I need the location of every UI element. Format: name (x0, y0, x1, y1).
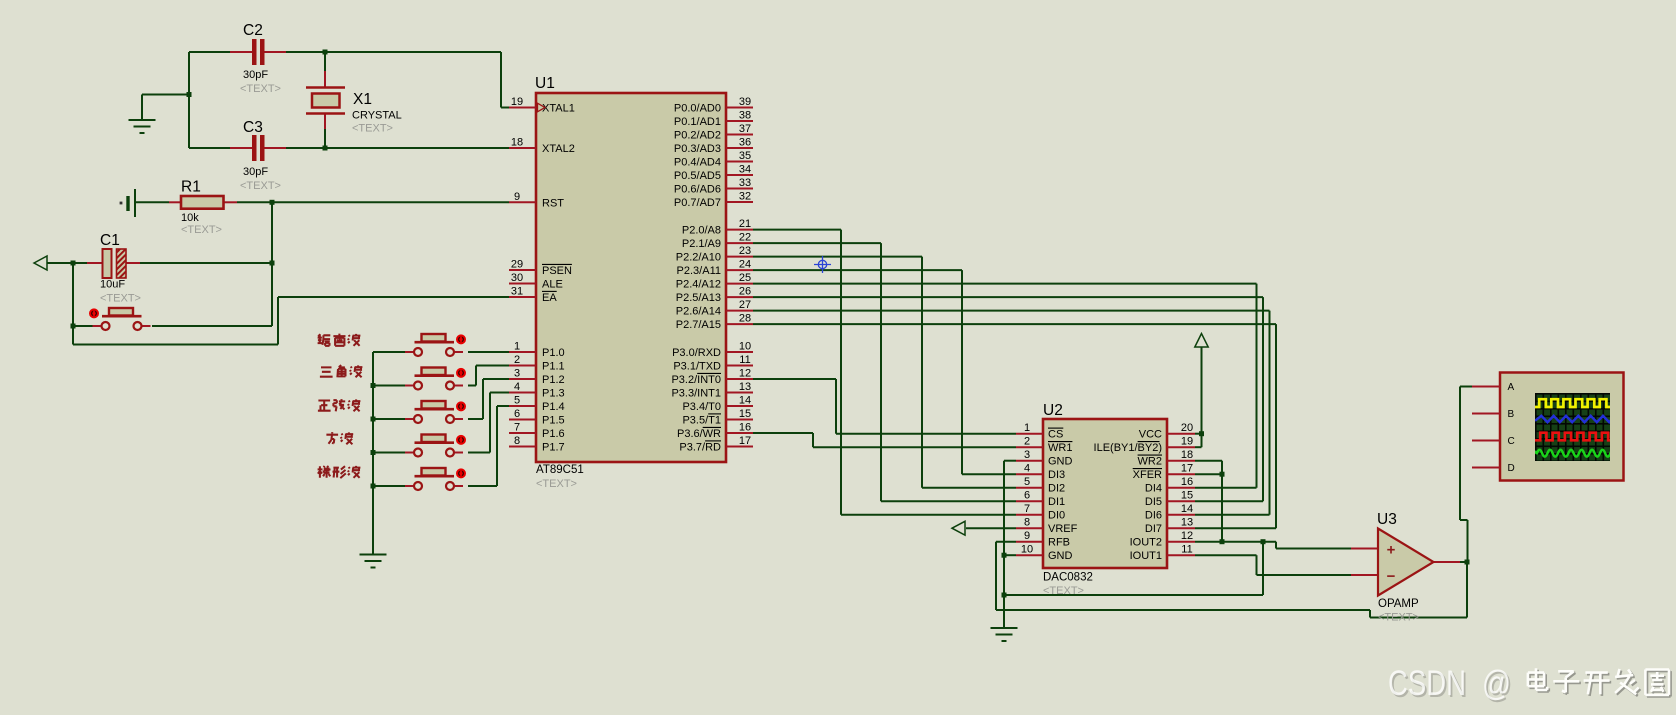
svg-text:P3.4/T0: P3.4/T0 (682, 401, 721, 413)
svg-text:WR2: WR2 (1138, 456, 1162, 468)
svg-text:P1.0: P1.0 (542, 347, 565, 359)
svg-text:<TEXT>: <TEXT> (1378, 612, 1419, 624)
svg-text:AT89C51: AT89C51 (536, 464, 584, 476)
svg-text:22: 22 (739, 232, 751, 244)
svg-text:6: 6 (1024, 490, 1030, 502)
svg-text:P0.6/AD6: P0.6/AD6 (674, 184, 721, 196)
svg-text:<TEXT>: <TEXT> (536, 478, 577, 490)
svg-text:32: 32 (739, 191, 751, 203)
svg-text:<TEXT>: <TEXT> (240, 83, 281, 95)
svg-text:35: 35 (739, 150, 751, 162)
svg-text:P0.1/AD1: P0.1/AD1 (674, 116, 721, 128)
svg-text:WR1: WR1 (1048, 442, 1072, 454)
svg-text:30: 30 (511, 272, 523, 284)
svg-text:3: 3 (514, 368, 520, 380)
svg-text:6: 6 (514, 408, 520, 420)
svg-text:GND: GND (1048, 550, 1073, 562)
svg-text:31: 31 (511, 286, 523, 298)
svg-text:<TEXT>: <TEXT> (181, 224, 222, 236)
svg-text:U3: U3 (1377, 511, 1397, 528)
svg-text:13: 13 (739, 381, 751, 393)
svg-text:CS: CS (1048, 429, 1063, 441)
svg-text:ALE: ALE (542, 279, 563, 291)
svg-text:38: 38 (739, 110, 751, 122)
svg-text:15: 15 (739, 408, 751, 420)
svg-text:RST: RST (542, 197, 564, 209)
svg-text:OPAMP: OPAMP (1378, 598, 1419, 610)
svg-text:14: 14 (1181, 503, 1193, 515)
svg-text:P1.3: P1.3 (542, 388, 565, 400)
svg-text:P3.7/RD: P3.7/RD (679, 442, 721, 454)
svg-text:<TEXT>: <TEXT> (352, 123, 393, 135)
svg-text:P2.7/A15: P2.7/A15 (676, 319, 721, 331)
svg-text:7: 7 (514, 422, 520, 434)
svg-text:IOUT1: IOUT1 (1130, 550, 1162, 562)
svg-text:XTAL2: XTAL2 (542, 143, 575, 155)
svg-text:39: 39 (739, 96, 751, 108)
svg-text:2: 2 (1024, 436, 1030, 448)
svg-text:17: 17 (1181, 463, 1193, 475)
svg-text:9: 9 (514, 191, 520, 203)
svg-text:−: − (1387, 568, 1396, 585)
svg-text:DI7: DI7 (1145, 523, 1162, 535)
svg-text:19: 19 (511, 96, 523, 108)
svg-text:37: 37 (739, 123, 751, 135)
svg-text:P3.6/WR: P3.6/WR (677, 428, 721, 440)
svg-text:P2.5/A13: P2.5/A13 (676, 292, 721, 304)
svg-text:10k: 10k (181, 212, 199, 224)
svg-text:P0.4/AD4: P0.4/AD4 (674, 157, 721, 169)
svg-text:5: 5 (514, 395, 520, 407)
svg-text:16: 16 (739, 422, 751, 434)
svg-text:8: 8 (514, 435, 520, 447)
svg-text:P2.4/A12: P2.4/A12 (676, 279, 721, 291)
svg-text:+: + (1387, 542, 1396, 559)
svg-text:12: 12 (739, 368, 751, 380)
svg-text:<TEXT>: <TEXT> (100, 293, 141, 305)
svg-text:C1: C1 (100, 232, 120, 249)
svg-text:DAC0832: DAC0832 (1043, 572, 1093, 584)
svg-text:C: C (1508, 436, 1515, 447)
svg-text:IOUT2: IOUT2 (1130, 537, 1162, 549)
svg-text:29: 29 (511, 259, 523, 271)
svg-text:20: 20 (1181, 422, 1193, 434)
svg-text:17: 17 (739, 435, 751, 447)
svg-text:14: 14 (739, 395, 751, 407)
svg-text:13: 13 (1181, 517, 1193, 529)
svg-text:VREF: VREF (1048, 523, 1078, 535)
svg-text:DI6: DI6 (1145, 510, 1162, 522)
svg-text:23: 23 (739, 245, 751, 257)
svg-text:3: 3 (1024, 449, 1030, 461)
svg-text:33: 33 (739, 177, 751, 189)
svg-text:P2.0/A8: P2.0/A8 (682, 225, 721, 237)
svg-text:XTAL1: XTAL1 (542, 103, 575, 115)
svg-text:10: 10 (739, 341, 751, 353)
svg-text:P1.2: P1.2 (542, 374, 565, 386)
svg-text:P1.7: P1.7 (542, 442, 565, 454)
svg-text:28: 28 (739, 313, 751, 325)
svg-text:24: 24 (739, 259, 751, 271)
svg-text:DI5: DI5 (1145, 496, 1162, 508)
svg-text:DI2: DI2 (1048, 483, 1065, 495)
svg-text:7: 7 (1024, 503, 1030, 515)
svg-text:25: 25 (739, 272, 751, 284)
svg-text:36: 36 (739, 137, 751, 149)
svg-text:26: 26 (739, 286, 751, 298)
svg-text:<TEXT>: <TEXT> (240, 180, 281, 192)
svg-text:PSEN: PSEN (542, 265, 572, 277)
svg-text:12: 12 (1181, 530, 1193, 542)
svg-text:P0.3/AD3: P0.3/AD3 (674, 143, 721, 155)
svg-text:16: 16 (1181, 476, 1193, 488)
svg-text:DI3: DI3 (1048, 469, 1065, 481)
svg-text:D: D (1508, 463, 1515, 474)
svg-text:P3.3/INT1: P3.3/INT1 (671, 388, 721, 400)
svg-text:<TEXT>: <TEXT> (1043, 585, 1084, 597)
svg-text:B: B (1508, 409, 1515, 420)
svg-text:GND: GND (1048, 456, 1073, 468)
svg-text:P0.0/AD0: P0.0/AD0 (674, 103, 721, 115)
svg-text:R1: R1 (181, 179, 201, 196)
svg-text:27: 27 (739, 299, 751, 311)
svg-text:P0.7/AD7: P0.7/AD7 (674, 197, 721, 209)
svg-text:U2: U2 (1043, 402, 1063, 419)
svg-text:P1.5: P1.5 (542, 415, 565, 427)
svg-text:CRYSTAL: CRYSTAL (352, 110, 402, 122)
svg-text:2: 2 (514, 354, 520, 366)
svg-text:P0.2/AD2: P0.2/AD2 (674, 130, 721, 142)
svg-text:X1: X1 (353, 91, 372, 108)
svg-text:P1.4: P1.4 (542, 401, 565, 413)
svg-text:4: 4 (1024, 463, 1030, 475)
svg-text:9: 9 (1024, 530, 1030, 542)
svg-text:21: 21 (739, 218, 751, 230)
svg-text:P2.2/A10: P2.2/A10 (676, 252, 721, 264)
svg-text:18: 18 (1181, 449, 1193, 461)
svg-text:P1.1: P1.1 (542, 361, 565, 373)
svg-text:P0.5/AD5: P0.5/AD5 (674, 170, 721, 182)
svg-text:P2.3/A11: P2.3/A11 (677, 265, 721, 277)
svg-text:4: 4 (514, 381, 520, 393)
svg-text:15: 15 (1181, 490, 1193, 502)
svg-text:C3: C3 (243, 119, 263, 136)
svg-text:P1.6: P1.6 (542, 428, 565, 440)
svg-text:U1: U1 (535, 75, 555, 92)
svg-text:11: 11 (739, 354, 750, 366)
svg-text:CSDN: CSDN (1388, 664, 1466, 703)
svg-text:A: A (1508, 382, 1515, 393)
svg-text:19: 19 (1181, 436, 1193, 448)
svg-text:5: 5 (1024, 476, 1030, 488)
svg-text:30pF: 30pF (243, 166, 268, 178)
svg-text:11: 11 (1181, 544, 1192, 556)
svg-text:P3.2/INT0: P3.2/INT0 (671, 374, 721, 386)
svg-text:C2: C2 (243, 22, 263, 39)
svg-text:P3.5/T1: P3.5/T1 (682, 415, 721, 427)
svg-text:DI1: DI1 (1048, 496, 1065, 508)
svg-text:10: 10 (1021, 544, 1033, 556)
svg-text:@: @ (1482, 664, 1511, 703)
svg-text:18: 18 (511, 137, 523, 149)
svg-text:P3.0/RXD: P3.0/RXD (672, 347, 721, 359)
svg-text:VCC: VCC (1139, 429, 1162, 441)
svg-text:DI4: DI4 (1145, 483, 1162, 495)
svg-text:P2.1/A9: P2.1/A9 (682, 238, 721, 250)
svg-text:10uF: 10uF (100, 279, 125, 291)
svg-text:P2.6/A14: P2.6/A14 (676, 306, 721, 318)
svg-text:ILE(BY1/BY2): ILE(BY1/BY2) (1094, 442, 1162, 454)
svg-text:1: 1 (1024, 422, 1030, 434)
svg-text:DI0: DI0 (1048, 510, 1065, 522)
svg-text:EA: EA (542, 292, 557, 304)
svg-text:RFB: RFB (1048, 537, 1070, 549)
svg-text:34: 34 (739, 164, 751, 176)
svg-text:1: 1 (514, 341, 520, 353)
svg-text:30pF: 30pF (243, 69, 268, 81)
svg-text:XFER: XFER (1133, 469, 1162, 481)
svg-text:8: 8 (1024, 517, 1030, 529)
svg-text:P3.1/TXD: P3.1/TXD (673, 361, 721, 373)
